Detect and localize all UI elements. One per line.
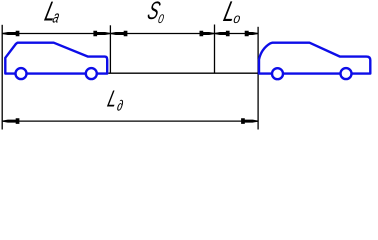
arrow So right [200, 31, 215, 37]
left car front wheel [86, 68, 97, 79]
right car body [259, 43, 370, 74]
label So - subscript 0 [157, 13, 165, 26]
right car front wheel [341, 68, 352, 79]
arrow So left [111, 31, 128, 37]
extension line left boundary x=2.2 [1, 25, 3, 130]
extension line at right car rear x=258.1 [257, 27, 259, 130]
label La - letter L [42, 0, 60, 27]
label So - letter S [145, 0, 164, 25]
arrow Ld left [3, 118, 20, 124]
top dimension line y=33.5 [2, 33, 258, 35]
label Lo - letter L [220, 0, 239, 28]
label La - subscript a [51, 8, 61, 27]
left car rear wheel [16, 68, 27, 79]
label Lo - subscript o [232, 10, 241, 26]
left car body [5, 43, 107, 74]
label Ld - letter L [105, 87, 120, 112]
bottom dimension line y=121.1 [2, 120, 258, 122]
arrow Ld right [241, 118, 258, 124]
arrow La right [93, 31, 110, 37]
arrow Lo left [215, 31, 230, 37]
ground line between cars y=73.2 [108, 72, 258, 74]
label Ld - subscript d (partial) [116, 97, 125, 114]
right car rear wheel [272, 68, 283, 79]
extension line mid gap x=214.5 [214, 25, 216, 74]
arrow Lo right [245, 31, 258, 37]
extension line at left car front x=110.4 [109, 25, 111, 73]
arrow La left [3, 31, 20, 37]
